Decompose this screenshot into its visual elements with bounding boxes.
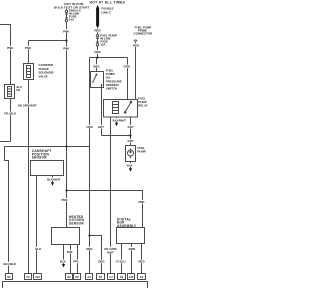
svg-text:FB: FB [16,88,20,92]
svg-text:PPL: PPL [73,260,79,264]
svg-text:D6: D6 [7,276,11,279]
svg-text:SENSOR: SENSOR [32,156,47,160]
svg-text:LINK C: LINK C [101,11,112,15]
svg-text:RED: RED [138,260,144,264]
svg-text:RED: RED [94,29,100,33]
svg-text:C4: C4 [109,276,113,279]
svg-text:LT BLU: LT BLU [116,260,126,264]
svg-text:C6: C6 [140,276,144,279]
svg-text:WHT: WHT [107,250,114,254]
svg-text:PNK: PNK [63,29,70,33]
svg-text:PNK: PNK [61,198,68,202]
svg-text:ORG: ORG [86,247,93,251]
svg-text:PNK: PNK [138,200,145,204]
svg-text:B2: B2 [67,276,71,279]
svg-text:VALVE: VALVE [39,74,48,78]
svg-text:ORG: ORG [86,125,93,129]
svg-text:GRY: GRY [128,125,134,129]
svg-text:A10: A10 [35,276,40,279]
svg-text:GRY: GRY [98,125,104,129]
svg-text:HOT AT ALL TIMES: HOT AT ALL TIMES [90,0,126,4]
svg-text:BRN: BRN [129,247,135,251]
svg-text:PNK: PNK [63,47,70,51]
svg-text:ORG: ORG [98,260,105,264]
svg-text:C10: C10 [129,276,134,279]
svg-text:BLK: BLK [127,163,134,167]
svg-text:ORG: ORG [124,65,131,69]
svg-text:A4: A4 [87,276,91,279]
svg-text:PNK: PNK [25,46,32,50]
svg-text:ORG: ORG [94,50,101,54]
svg-text:TAN: TAN [67,250,73,254]
svg-text:15A: 15A [100,43,106,47]
svg-text:YEL/BLK: YEL/BLK [4,112,17,116]
svg-text:PNK: PNK [7,46,14,50]
svg-text:ASSEMBLY: ASSEMBLY [117,224,137,228]
svg-text:BLU/BLK: BLU/BLK [3,262,17,266]
svg-text:DK GRN/WHT: DK GRN/WHT [18,104,37,108]
svg-text:RELAY: RELAY [138,104,148,108]
svg-text:10A: 10A [69,17,75,21]
svg-text:SWITCH: SWITCH [106,87,117,91]
svg-text:BLK/WHT: BLK/WHT [113,118,127,122]
svg-text:ORG: ORG [93,64,100,68]
svg-text:BLK/WHT: BLK/WHT [47,177,61,181]
svg-text:C5: C5 [26,276,30,279]
svg-text:PUMP: PUMP [138,150,146,154]
svg-text:RED: RED [133,43,139,47]
svg-text:D9: D9 [75,276,79,279]
svg-text:SENSOR: SENSOR [69,222,84,226]
svg-text:B4: B4 [99,276,103,279]
svg-text:GRY: GRY [128,139,134,143]
svg-text:CONNECTOR: CONNECTOR [134,32,153,36]
svg-text:BLK: BLK [35,247,42,251]
svg-text:C9: C9 [120,276,124,279]
svg-text:BLK: BLK [60,260,67,264]
